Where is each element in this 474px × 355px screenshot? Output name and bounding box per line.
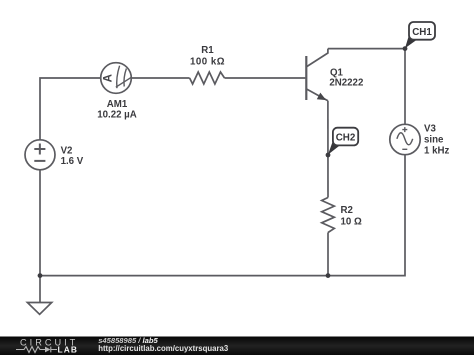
wire: AM1 to R1 [131,77,189,79]
logo resistor-diode glyph [16,347,57,353]
svg-text:sine: sine [424,135,444,146]
svg-text:R2: R2 [341,205,353,216]
voltage source V2 [25,140,55,170]
logo CIRCUIT [20,338,78,348]
svg-text:R1: R1 [201,45,214,56]
wire: V2 bottom down to bottom wire [39,170,41,276]
logo LAB [58,344,79,354]
wire: CH1 node down to V3 [404,49,406,125]
svg-text:100 kΩ: 100 kΩ [190,57,225,68]
svg-text:CH1: CH1 [412,27,432,38]
voltage source V3 sine [390,124,420,154]
resistor R1 [190,72,225,84]
svg-text:A: A [103,74,115,82]
wire: bottom node down to ground [39,276,41,303]
svg-text:LAB: LAB [58,344,79,354]
svg-text:http://circuitlab.com/cuyxtrsq: http://circuitlab.com/cuyxtrsquara3 [98,344,229,353]
node: ground junction [38,273,43,278]
svg-text:V3: V3 [424,123,436,134]
resistor R2 [322,198,335,233]
node: R2 bottom junction [326,273,331,278]
wire: V3 bottom down and left along bottom [40,155,405,276]
svg-text:10.22 µA: 10.22 µA [97,109,137,120]
value label V2 [61,145,84,167]
node: emitter/CH2 junction [326,153,331,158]
wire: R2 to bottom wire [327,233,329,276]
footer bar [0,337,474,355]
label A of ammeter [103,74,115,82]
wire: R1 to Q1 base [225,77,306,79]
value label V3 [424,123,449,156]
value label R2 [341,205,362,227]
value label Q1 [329,68,363,89]
svg-text:1.6 V: 1.6 V [61,156,84,167]
svg-text:V2: V2 [61,145,73,156]
svg-text:10 Ω: 10 Ω [341,217,362,228]
svg-text:CH2: CH2 [336,133,356,144]
footer text: s45858985 / lab5 [98,336,158,345]
value label AM1 [97,99,137,120]
flag CH1 [405,22,435,48]
ground [27,303,51,315]
flag CH2 [328,128,358,155]
transistor Q1 2N2222 [306,49,328,101]
wire: Q1 emitter down to R2 [327,101,329,198]
svg-text:1 kHz: 1 kHz [424,146,449,157]
wire: V2 top up and right to AM1 [40,78,101,140]
node: collector/CH1 junction [403,46,408,51]
footer text: url [98,344,229,353]
value label R1 [190,45,225,68]
ammeter AM1 [101,63,132,94]
wire: Q1 collector to CH1 node [328,48,405,50]
svg-text:2N2222: 2N2222 [329,77,363,88]
